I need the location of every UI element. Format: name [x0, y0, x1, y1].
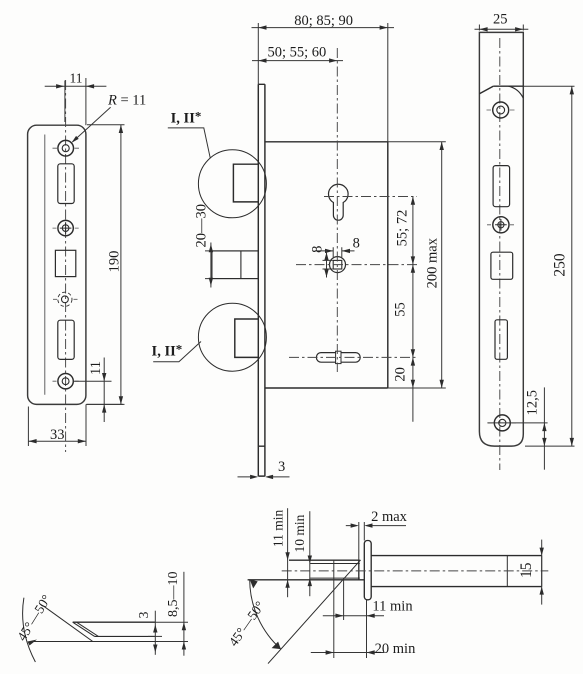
hub tube inner bottom	[310, 577, 360, 579]
label I,II bottom underline and leader	[153, 342, 201, 362]
strike plate lip edge	[493, 85, 523, 87]
detail circle I top	[198, 150, 266, 218]
dim chain 55;72 / 55 / 20 line	[412, 197, 414, 422]
dim 3 line and arrows	[238, 476, 290, 478]
svg-text:12,5: 12,5	[525, 390, 541, 415]
dim 12,5 arrows	[542, 423, 546, 446]
lock case bottom edge	[265, 387, 388, 389]
svg-text:50; 55; 60: 50; 55; 60	[267, 45, 326, 61]
dim 25 arrows	[479, 27, 523, 31]
slot A2	[58, 320, 74, 359]
baseline	[34, 641, 158, 643]
svg-text:11 min: 11 min	[372, 599, 413, 615]
dim 25 extension lines	[479, 25, 523, 31]
angle arc arrow	[28, 640, 38, 646]
hub tube outer top	[289, 559, 360, 561]
left view texts	[50, 71, 146, 443]
latch bolt bottom edge	[95, 635, 156, 637]
dim 11 min left arrows	[285, 552, 289, 588]
dim 190: extension lines	[87, 125, 125, 405]
bottom slot centre tab	[336, 351, 341, 363]
main vertical centreline	[336, 48, 338, 372]
dim 10 min line	[309, 511, 311, 596]
dim 250 line	[571, 86, 573, 446]
spindle shaft end cap	[541, 556, 543, 587]
square hole B	[491, 252, 513, 279]
svg-text:8: 8	[309, 246, 325, 253]
dim 20-30 arrows	[209, 244, 213, 286]
left plate body	[28, 125, 86, 404]
dim 12,5 reference line	[487, 422, 547, 424]
svg-text:200 max: 200 max	[425, 237, 441, 288]
right plate centreline	[499, 38, 501, 470]
dim 11 bottom arrows	[102, 373, 106, 413]
spindle shaft top	[371, 555, 542, 557]
keyhole horizontal centreline	[324, 196, 417, 198]
dim 8,5-10 arrows	[182, 622, 186, 649]
spindle centreline	[282, 570, 549, 572]
hub tube outer bottom and angle base ray	[248, 579, 365, 581]
dim 20 min arrows	[326, 650, 375, 654]
slot B2 thin	[495, 320, 507, 360]
hole B3	[494, 415, 510, 431]
hole B1	[493, 102, 509, 118]
dim 8 height extension lines	[323, 260, 333, 269]
dim 33: dimension line	[28, 440, 86, 442]
latch bolt bevel inner line	[77, 622, 99, 636]
hole A3 dashed circle	[58, 292, 72, 306]
door face line	[358, 560, 360, 580]
hole B2 with cross	[493, 217, 509, 233]
dim 50;55;60 arrows	[258, 58, 337, 62]
middle view texts	[152, 13, 441, 475]
slot B1	[493, 166, 510, 207]
dead bolt divider	[240, 251, 242, 279]
dim 10 min arrows	[308, 556, 312, 587]
bottom slot	[316, 353, 360, 363]
angle arc	[250, 579, 281, 649]
slot horizontal centreline	[289, 356, 417, 358]
svg-text:15: 15	[518, 562, 535, 578]
lock case top edge	[265, 141, 388, 143]
svg-text:10 min: 10 min	[292, 514, 307, 552]
slot A1	[58, 164, 74, 204]
dim 11 bottom: reference lines	[74, 380, 112, 382]
svg-text:8,5—10: 8,5—10	[166, 572, 181, 618]
svg-text:250: 250	[552, 253, 569, 277]
dim 2max arrows	[351, 523, 373, 527]
svg-text:I, II*: I, II*	[152, 342, 183, 360]
dim 80;85;90 arrows	[258, 25, 388, 29]
dim 11 min bottom arrows	[335, 614, 374, 618]
latch bolt top	[233, 164, 258, 202]
svg-text:11: 11	[70, 71, 83, 86]
svg-text:3: 3	[278, 459, 285, 475]
svg-text:20 min: 20 min	[375, 641, 416, 657]
angle ray	[44, 607, 92, 642]
svg-text:2 max: 2 max	[371, 509, 408, 525]
case bottom extension	[388, 387, 446, 389]
leader R=11	[73, 107, 111, 142]
dim 3 line	[154, 611, 156, 655]
right view texts	[493, 11, 569, 415]
left plate inner edge line	[44, 135, 46, 395]
svg-text:20: 20	[393, 367, 409, 382]
svg-text:8: 8	[353, 236, 360, 252]
dim 2max line	[346, 525, 406, 527]
dim 250 extension (lip line)	[523, 85, 574, 87]
fore-end face plate (edge view)	[258, 84, 265, 476]
dim 20-30 extension edges	[205, 251, 212, 279]
dim 8 width line	[316, 250, 355, 252]
dim 8 height line	[326, 249, 328, 277]
dim chain arrows	[411, 197, 415, 205]
hole A1 top screw hole	[58, 140, 74, 156]
angle arc	[23, 598, 36, 662]
dim 12,5 line	[543, 387, 545, 469]
dim 250 extension bottom	[525, 445, 575, 447]
svg-text:80; 85; 90: 80; 85; 90	[294, 13, 353, 29]
dim 2max extension lines	[359, 522, 365, 560]
label I,II top underline and leader	[168, 128, 211, 158]
dim 11 top arrows	[56, 84, 94, 88]
follower square 8x8	[333, 260, 342, 269]
ext line x333.8	[333, 560, 335, 658]
dim 15 arrows	[540, 548, 544, 595]
hub tube inner top	[310, 563, 360, 565]
dim 250 arrows	[570, 86, 574, 446]
angle arc arrows	[250, 579, 258, 588]
dim 11 min left line	[287, 508, 289, 597]
dim 20 min line	[311, 652, 384, 654]
svg-text:190: 190	[107, 251, 123, 273]
ext line x366.5	[366, 600, 368, 658]
hole A4 bottom screw hole	[58, 374, 73, 389]
dim 11 top: dimension line	[45, 85, 107, 87]
dim 200max line	[441, 142, 443, 388]
strike plate body	[479, 32, 523, 446]
dim 8,5-10 line	[183, 572, 185, 656]
dim 15 line	[541, 540, 543, 605]
strike plate lip curve	[509, 86, 524, 98]
square hole A	[55, 250, 75, 276]
dim 190: dimension line	[120, 125, 122, 405]
follower hole circle	[330, 257, 346, 273]
strike plate lip chamfer	[479, 86, 493, 94]
svg-text:11 min: 11 min	[271, 509, 286, 547]
ext line x343.6	[343, 580, 345, 620]
case top extension to 200max	[388, 141, 446, 143]
svg-text:55: 55	[393, 302, 409, 317]
dim 8,5-10 reference extensions	[155, 622, 188, 641]
cylinder key hole	[329, 184, 349, 220]
detail circle II bottom	[198, 303, 266, 371]
dim 25 line	[475, 28, 529, 30]
dim 20-30 line	[210, 243, 212, 288]
svg-text:11: 11	[88, 361, 104, 375]
spindle shaft inner line	[506, 556, 508, 587]
latch bolt bevel	[73, 622, 95, 636]
dim 8 height arrows	[324, 252, 328, 277]
follower horizontal centreline	[296, 264, 417, 266]
dim 200max arrows	[440, 142, 444, 388]
svg-text:20—30: 20—30	[194, 204, 210, 248]
flange plate	[364, 541, 371, 600]
svg-text:45°—50°: 45°—50°	[14, 592, 54, 643]
dim 8 width arrows	[325, 249, 350, 253]
dim 33: extension lines	[28, 404, 86, 446]
dim 80;85;90 extension lines	[258, 23, 388, 142]
svg-text:33: 33	[50, 427, 65, 443]
latch bolt top edge	[73, 621, 156, 623]
svg-text:3: 3	[136, 611, 151, 618]
lock case right edge	[387, 142, 389, 388]
bottom-right detail texts	[226, 509, 535, 657]
svg-text:25: 25	[493, 11, 508, 27]
dim 3 arrows	[153, 625, 157, 653]
svg-text:55; 72: 55; 72	[395, 210, 411, 247]
dim 190 arrows	[119, 125, 123, 405]
dim 11 min bottom line	[323, 615, 384, 617]
hole A2 screw hole with cross	[58, 220, 73, 235]
dim 3 tick	[148, 635, 162, 637]
left plate vertical centerline	[65, 80, 67, 452]
bottom-left detail texts	[14, 572, 181, 644]
svg-text:I, II*: I, II*	[171, 109, 202, 127]
dim 80;85;90 line	[252, 27, 395, 29]
dim 11 bottom: dimension line	[103, 358, 105, 423]
dead bolt	[212, 251, 258, 279]
dim 11 top: extension lines	[64, 81, 66, 123]
spindle shaft bottom	[371, 586, 542, 588]
dim 50;55;60 line	[252, 60, 343, 62]
angle ray diagonal	[268, 560, 361, 664]
dim 33 arrows	[28, 439, 86, 443]
svg-text:R = 11: R = 11	[107, 93, 146, 109]
dim 8 width extension lines	[333, 247, 342, 257]
latch bolt bottom	[235, 319, 258, 357]
